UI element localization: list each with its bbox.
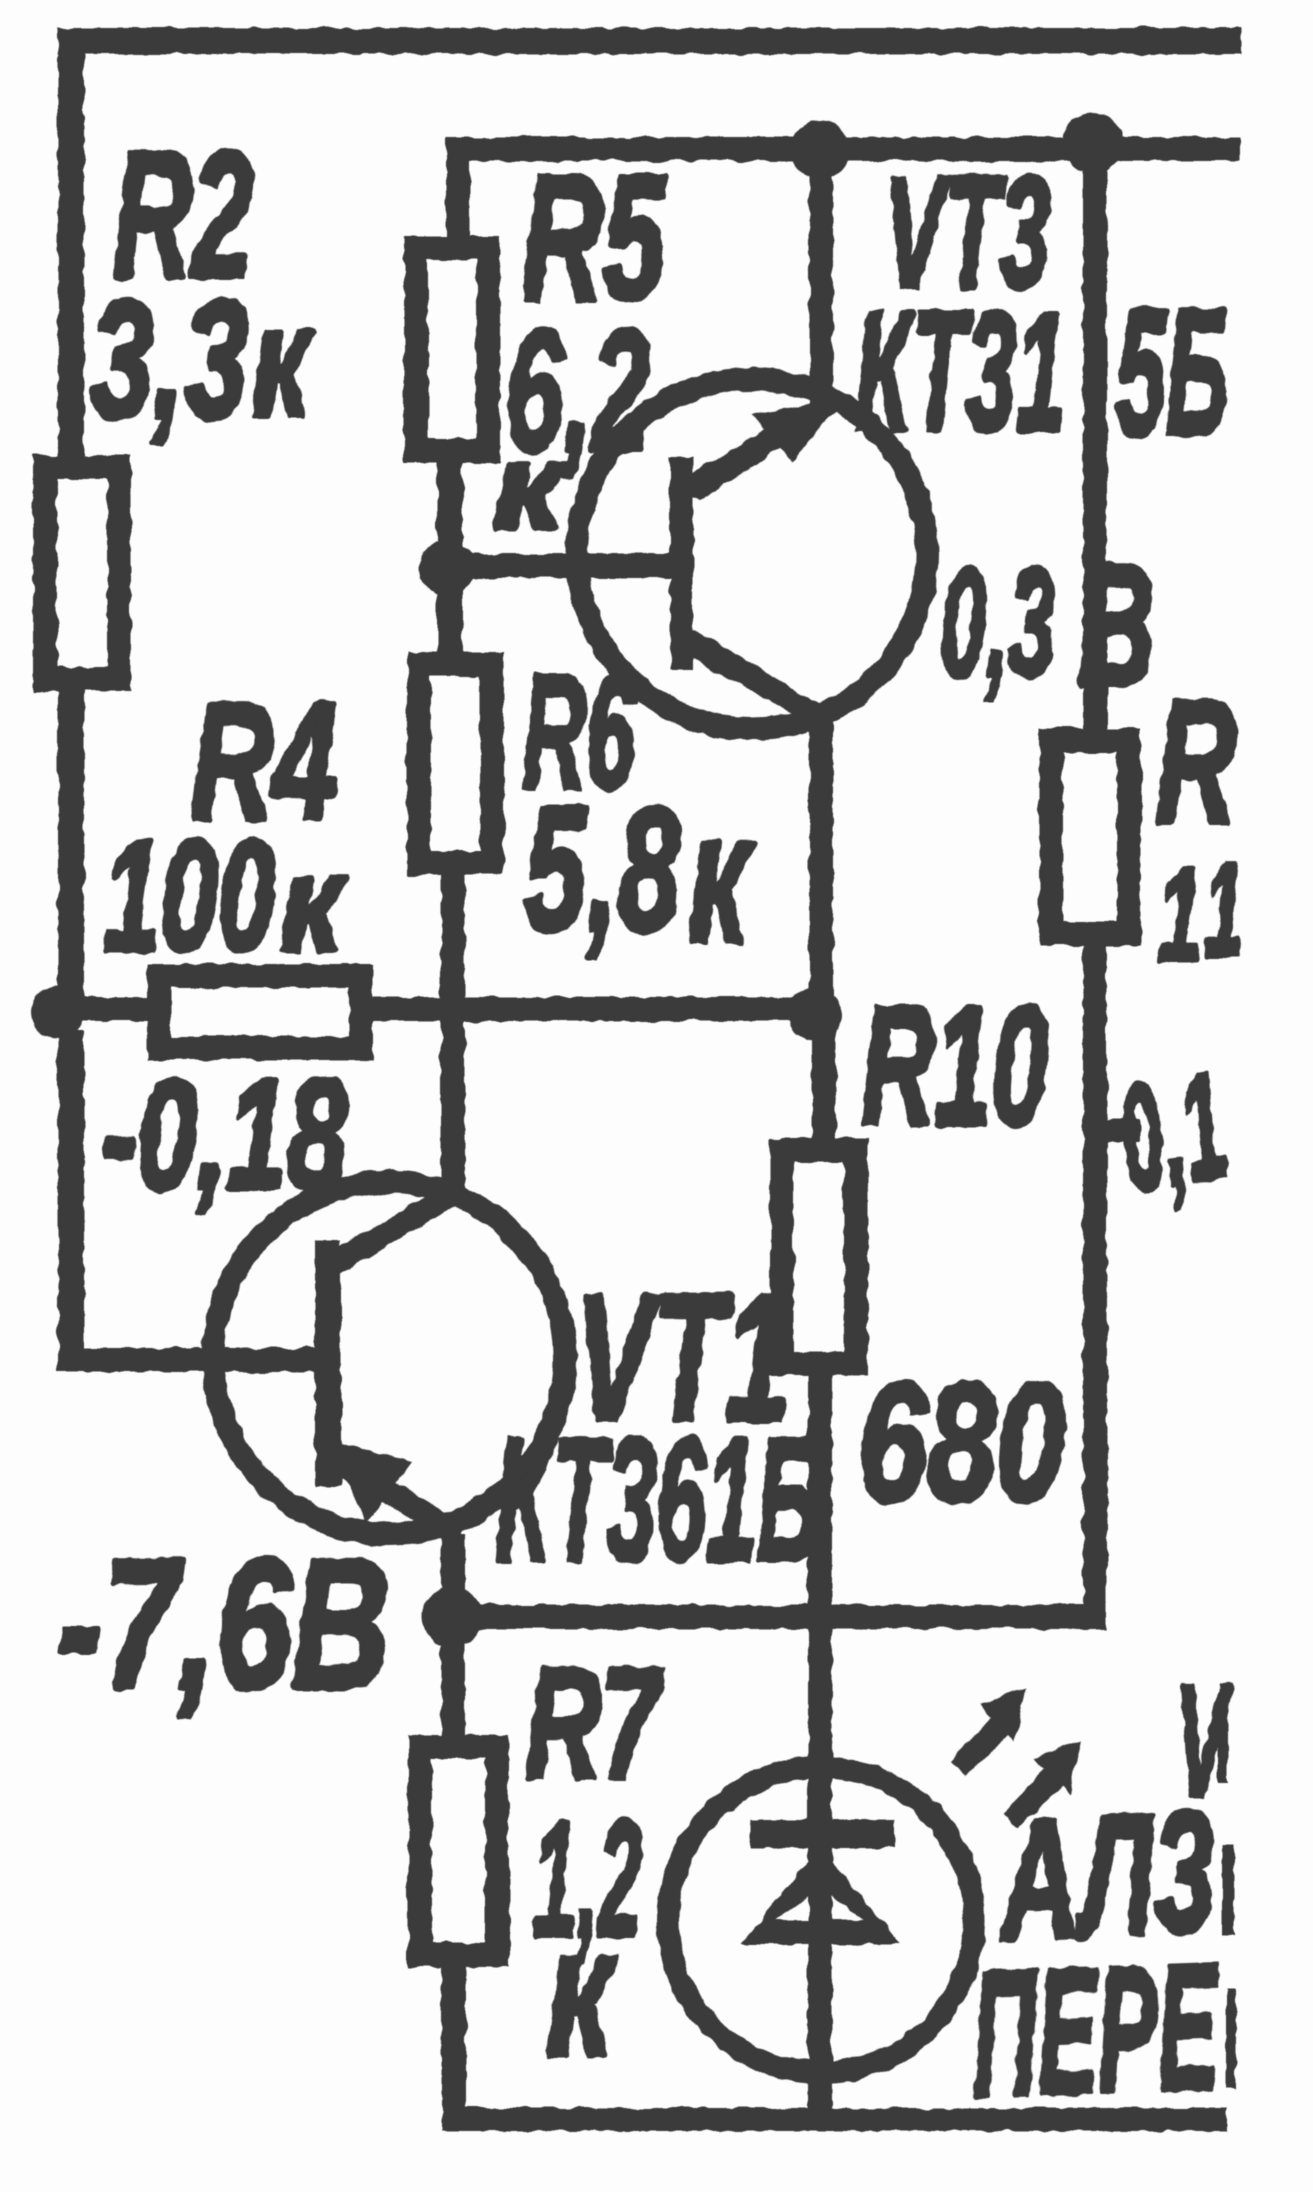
label sliver cut char after АЛ3 <box>1222 1845 1234 1935</box>
svg-text:5Б: 5Б <box>1116 272 1229 473</box>
svg-text:-0,18: -0,18 <box>101 1048 347 1222</box>
node A junction dot <box>31 985 85 1039</box>
wire bottom rail <box>442 2108 1227 2131</box>
wire second rail <box>446 137 1240 161</box>
wire right vertical (below R11) <box>1083 946 1107 1629</box>
svg-text:к: к <box>688 775 754 981</box>
svg-text:5,8: 5,8 <box>524 769 680 968</box>
resistor R5 <box>404 236 500 463</box>
wire VT3 emitter vertical to top <box>809 150 833 410</box>
resistor R4 <box>147 964 373 1060</box>
resistor R11 <box>1039 728 1141 946</box>
svg-text:100: 100 <box>103 808 275 984</box>
node E junction dot <box>790 120 850 180</box>
wire 0,1 tick <box>1097 1119 1140 1143</box>
svg-text:к: к <box>252 273 315 449</box>
svg-text:680: 680 <box>858 1348 1065 1536</box>
svg-text:В: В <box>1078 527 1155 722</box>
transistor VT3 collector diagonal <box>680 630 834 732</box>
svg-text:R10: R10 <box>861 971 1048 1161</box>
svg-text:1: 1 <box>1204 836 1244 983</box>
wire left vertical (top segment) <box>58 40 84 460</box>
transistor VT3 emitter diagonal with arrow <box>680 394 842 500</box>
transistor VT1 base bar <box>315 1239 341 1486</box>
LED diode triangle <box>741 1848 901 1944</box>
svg-text:0,1: 0,1 <box>1106 1040 1238 1224</box>
wire R10 bottom / LED vertical <box>808 1376 832 2120</box>
transistor VT3 base bar <box>670 457 693 670</box>
LED diode bar <box>750 1820 895 1848</box>
svg-text:R: R <box>1156 665 1236 860</box>
transistor VT1 collector diagonal <box>322 1182 462 1278</box>
LED light arrow 1 <box>950 1714 1012 1776</box>
svg-text:к: к <box>493 420 568 554</box>
wire VT1 base horizontal <box>58 1348 341 1372</box>
wire mid rail right segment <box>373 997 815 1021</box>
node C junction dot <box>422 1587 482 1647</box>
svg-text:-7,6В: -7,6В <box>57 1522 390 1728</box>
wire R10 top lead <box>812 1030 836 1138</box>
transistor VT1 circle <box>213 1182 565 1534</box>
svg-text:к: к <box>280 828 347 979</box>
svg-text:3,3: 3,3 <box>90 265 248 453</box>
wire VT3 collector vertical to node B <box>809 712 833 1012</box>
wire left vertical (below node A) <box>58 1030 84 1372</box>
node D junction dot <box>419 540 475 596</box>
wire node C to R7 <box>441 1629 465 1735</box>
wire right vertical (top segment) <box>1083 143 1107 728</box>
wire R5 top lead <box>446 155 470 240</box>
wire R6 bottom / VT1 collector vertical <box>441 875 465 1193</box>
LED VD circle <box>668 1767 974 2073</box>
svg-text:ПЕРЕ: ПЕРЕ <box>968 1926 1223 2134</box>
node B junction dot <box>788 987 842 1041</box>
svg-text:к: к <box>546 1889 619 2095</box>
svg-text:0,3: 0,3 <box>940 536 1055 709</box>
resistor R6 <box>407 652 504 875</box>
resistor R2 <box>33 455 131 691</box>
wire top rail <box>57 28 1241 54</box>
svg-text:КТ31: КТ31 <box>855 277 1066 467</box>
wire R5 bottom lead <box>437 463 463 553</box>
wire VT3 base horizontal <box>447 554 681 578</box>
wire -7,6V rail <box>452 1605 1103 1629</box>
transistor VT1 emitter diagonal with arrow <box>322 1446 465 1544</box>
LED light arrow 2 <box>1003 1766 1065 1828</box>
transistor VT3 circle <box>577 379 927 729</box>
resistor R7 <box>408 1735 509 1967</box>
wire node D to R6 <box>437 585 463 655</box>
svg-text:R7: R7 <box>525 1636 665 1812</box>
wire R7 bottom lead <box>442 1967 466 2131</box>
wire left vertical (below R2) <box>58 691 84 1021</box>
svg-text:КТ361Б: КТ361Б <box>495 1403 820 1598</box>
node F junction dot <box>1063 113 1123 173</box>
label sliver cut char after V <box>1218 1688 1228 1783</box>
resistor R10 <box>770 1138 868 1376</box>
svg-text:1: 1 <box>1158 841 1202 988</box>
wire VT1 emitter vertical <box>441 1534 465 1619</box>
label sliver cut char after ПЕРЕ <box>1226 1988 1236 2088</box>
wire mid rail left segment <box>70 997 147 1021</box>
